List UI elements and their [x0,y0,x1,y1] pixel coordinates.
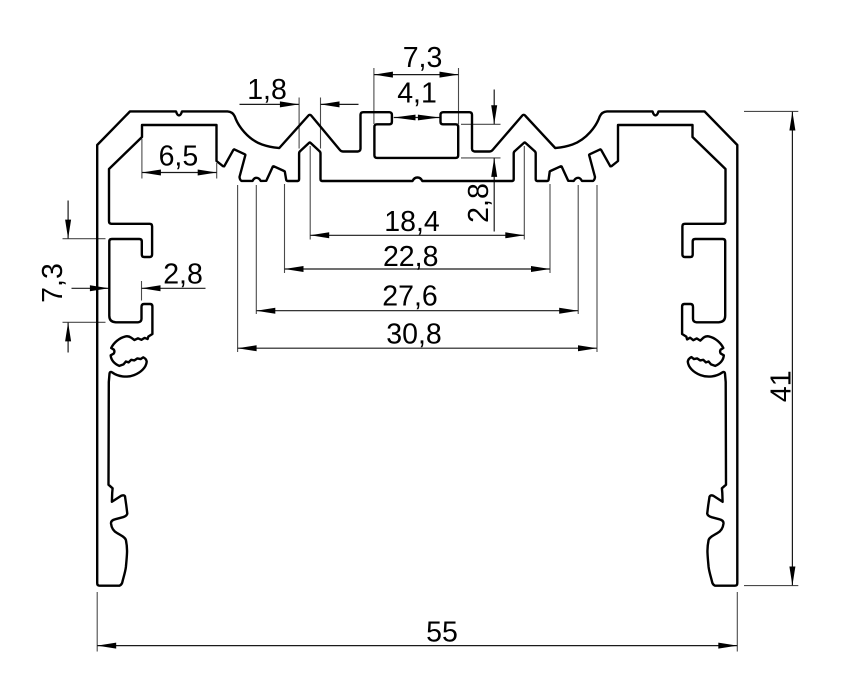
dimension 18,4 (between spike apexes) [310,146,524,240]
svg-text:2,8: 2,8 [163,258,203,290]
dimension 4,1 (top slot opening) [394,78,440,121]
dimension 55 (overall width) [97,592,737,652]
dimension 30,8 [238,185,597,352]
dimension 7,3 (top slot inner width) [374,42,459,124]
svg-text:22,8: 22,8 [383,241,438,273]
svg-text:7,3: 7,3 [403,42,443,74]
svg-text:27,6: 27,6 [382,281,437,313]
dimension 1,8 (spike pedestal width) [240,74,359,148]
dimension 22,8 [285,184,551,273]
dimension 2,8 (side channel depth) [72,258,206,300]
svg-text:30,8: 30,8 [386,319,441,351]
dimension 27,6 [256,185,578,314]
dimension 7,3 (side channel height, rotated) [37,201,106,353]
svg-text:41: 41 [766,370,798,402]
svg-text:1,8: 1,8 [247,74,287,106]
dimension 41 (overall height, rotated) [744,111,798,585]
aluminium profile cross-section outline [97,111,737,585]
svg-text:4,1: 4,1 [397,78,437,110]
svg-text:7,3: 7,3 [37,263,69,303]
svg-text:6,5: 6,5 [159,141,199,173]
svg-text:18,4: 18,4 [384,206,440,238]
svg-text:55: 55 [426,617,458,649]
dimension 2,8 (slot depth, rotated) [461,90,501,232]
svg-text:2,8: 2,8 [463,183,495,223]
dimension 6,5 (top recess width) [142,139,217,179]
